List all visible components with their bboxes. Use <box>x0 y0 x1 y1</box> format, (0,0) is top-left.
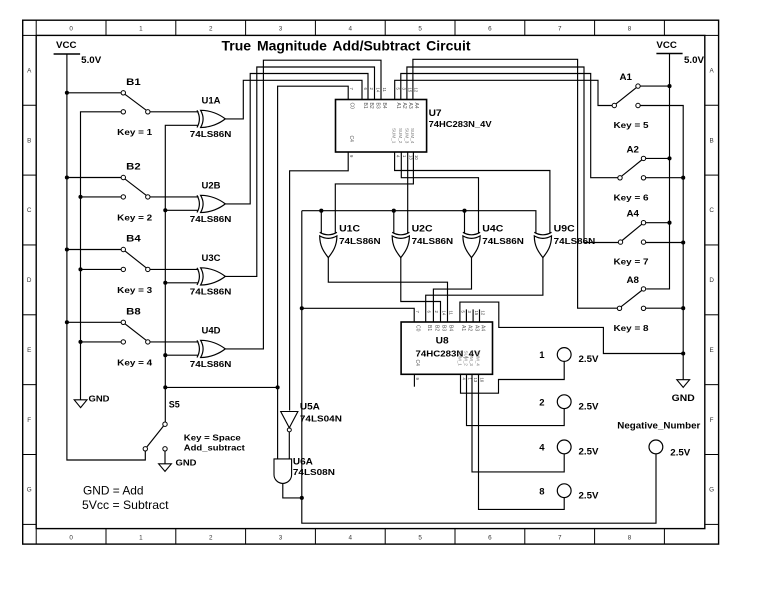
ground symbol S5 <box>159 457 197 471</box>
svg-text:11: 11 <box>382 88 387 93</box>
wire VCC to B2 top throw <box>67 177 121 179</box>
svg-text:U7: U7 <box>429 108 442 118</box>
wire to U8 C0 <box>302 308 414 322</box>
svg-text:A4: A4 <box>480 325 486 331</box>
U8 pin names inside <box>414 325 486 366</box>
wire rail tap U4C <box>464 211 466 234</box>
svg-text:GND: GND <box>672 393 695 403</box>
svg-text:1: 1 <box>539 350 545 361</box>
junction control rail to add/subtract net <box>163 385 167 389</box>
junction control - S5 feed <box>276 385 280 389</box>
switch B1 (SPDT) <box>121 77 150 114</box>
XOR gate U3C 74LS86N <box>190 253 232 296</box>
wire stub to U2B input B <box>165 209 197 211</box>
wire B8 bottom throw to GND rail <box>81 341 122 343</box>
junction GND rail - U8 A1 net <box>681 351 685 355</box>
svg-text:5: 5 <box>418 534 422 541</box>
probe indicator 4 2.5V <box>539 440 598 457</box>
XOR gate U2C 74LS86N <box>392 224 453 258</box>
svg-text:C4: C4 <box>348 136 354 143</box>
svg-text:SUM_2: SUM_2 <box>463 351 468 367</box>
svg-text:A2: A2 <box>467 325 473 331</box>
wire U7 C4 to U5A input <box>290 152 349 411</box>
wire U5A output to U6A input <box>288 432 290 459</box>
wire complement rail from U6A output net <box>302 211 536 234</box>
wire VCC to B4 top throw <box>67 249 121 251</box>
U8 pin A3 unconnected stub <box>472 309 474 322</box>
wire U2B output to U7 pin <box>225 74 368 204</box>
wire GND rail right from A1 bottom throw <box>640 106 683 380</box>
power VCC right 5.0V <box>656 40 704 65</box>
svg-text:U9C: U9C <box>554 224 576 234</box>
svg-text:74LS86N: 74LS86N <box>554 236 596 246</box>
switch S5 add/subtract <box>143 399 180 451</box>
wire A1 top throw to VCC rail <box>640 85 669 87</box>
svg-text:GND: GND <box>176 457 197 467</box>
svg-text:B3: B3 <box>375 103 381 109</box>
svg-text:C: C <box>709 207 714 214</box>
svg-text:2.5V: 2.5V <box>579 490 599 500</box>
svg-text:2.5V: 2.5V <box>670 447 690 457</box>
XOR gate U4C 74LS86N <box>463 224 524 258</box>
svg-text:2: 2 <box>209 26 213 33</box>
wire add/subtract control to U7 C0 and U6A <box>278 86 349 459</box>
svg-text:A8: A8 <box>627 275 640 285</box>
probe indicator Negative_Number 2.5V <box>617 419 700 457</box>
wire A8 bottom throw to GND rail <box>646 307 684 309</box>
junction control-U2B <box>163 208 167 212</box>
svg-text:D: D <box>27 277 32 284</box>
wire A4 bottom throw to GND rail <box>646 242 684 244</box>
svg-text:11: 11 <box>448 311 453 316</box>
svg-text:7: 7 <box>558 26 562 33</box>
svg-text:VCC: VCC <box>656 40 677 50</box>
junction GND-B2 <box>78 195 82 199</box>
junction VCC-B2 <box>65 175 69 179</box>
XOR gate U1A 74LS86N <box>190 96 232 139</box>
probe indicator 8 2.5V <box>539 484 598 500</box>
wire U9C output to U8 B1 <box>426 258 543 322</box>
XOR gate U4D 74LS86N <box>190 326 232 369</box>
wire S5 GND throw <box>164 451 166 464</box>
svg-text:U2C: U2C <box>412 224 434 234</box>
wire rail tap U2C <box>393 211 395 234</box>
svg-text:A4: A4 <box>413 103 419 109</box>
svg-text:74LS86N: 74LS86N <box>190 359 232 369</box>
wire U7 SUM_1 to U9C input <box>395 152 550 234</box>
svg-text:13: 13 <box>473 378 478 383</box>
adder chip U8 74HC283N_4V <box>401 322 492 374</box>
XOR gate U9C 74LS86N <box>534 224 595 258</box>
switch B4 (SPDT) <box>121 234 150 272</box>
svg-text:A1: A1 <box>395 103 401 109</box>
svg-text:1: 1 <box>139 534 143 541</box>
svg-text:15: 15 <box>408 88 413 93</box>
svg-text:B4: B4 <box>126 234 141 244</box>
junction control-U4D <box>163 353 167 357</box>
wire U4C output to U8 B2 <box>433 258 471 322</box>
svg-text:D: D <box>709 277 714 284</box>
U8 pin C4 unconnected stub <box>413 374 415 386</box>
svg-text:12: 12 <box>414 88 419 93</box>
svg-text:10: 10 <box>414 155 419 160</box>
svg-text:U1C: U1C <box>339 224 361 234</box>
wire U6A output to negative net <box>283 483 302 498</box>
svg-text:15: 15 <box>474 311 479 316</box>
junction control-U3C <box>163 281 167 285</box>
power VCC left 5.0V <box>54 40 102 65</box>
svg-text:Key = 3: Key = 3 <box>117 285 152 295</box>
inverter U5A 74LS04N <box>281 402 342 432</box>
probe indicator 2 2.5V <box>539 395 598 411</box>
wire A8 pivot to U7 A4 <box>413 59 617 308</box>
wire rail tap U1C <box>320 211 322 234</box>
wire U7 SUM_2 to U4C input <box>401 152 478 234</box>
svg-text:B3: B3 <box>441 325 447 331</box>
svg-text:Key = 7: Key = 7 <box>614 257 649 267</box>
svg-text:C0: C0 <box>414 325 420 332</box>
wire U1C output to U8 B4 <box>328 258 447 322</box>
svg-text:10: 10 <box>479 378 484 383</box>
svg-text:B8: B8 <box>126 307 141 317</box>
wire A1 pivot to U7 A1 <box>395 80 612 105</box>
junction VCC-A4 <box>667 221 671 225</box>
svg-text:74LS86N: 74LS86N <box>190 129 232 139</box>
svg-text:GND = Add: GND = Add <box>83 484 144 498</box>
svg-text:G: G <box>709 487 714 494</box>
svg-text:Add_subtract: Add_subtract <box>184 443 245 453</box>
wire U8 SUM_1 to probe 1 <box>461 362 565 394</box>
svg-text:F: F <box>27 417 31 424</box>
junction GND-A4 <box>681 240 685 244</box>
svg-text:74LS86N: 74LS86N <box>190 286 232 296</box>
svg-text:1: 1 <box>139 26 143 33</box>
svg-text:A2: A2 <box>627 144 640 154</box>
U7 pin names inside <box>348 103 419 144</box>
switch A2 (SPDT) <box>618 144 646 180</box>
svg-text:2.5V: 2.5V <box>579 447 599 457</box>
switch A4 (SPDT) <box>618 209 645 245</box>
svg-text:U5A: U5A <box>300 402 321 412</box>
junction U6A output <box>300 496 304 500</box>
wire VCC to B8 top throw <box>67 321 121 323</box>
wire B8 pivot to U4D input A <box>150 341 199 343</box>
svg-text:B: B <box>27 137 31 144</box>
wire U8 SUM_3 to probe 4 <box>472 374 564 472</box>
svg-text:B1: B1 <box>362 103 368 109</box>
label Key = Space / Add_subtract <box>184 432 245 452</box>
junction GND-A2 <box>681 176 685 180</box>
svg-text:U6A: U6A <box>293 456 314 466</box>
AND gate U6A 74LS08N <box>274 456 335 483</box>
svg-text:2.5V: 2.5V <box>579 354 599 364</box>
wire S5 control rail to XOR B-inputs <box>165 125 197 422</box>
wire A4 top throw to VCC rail <box>646 222 670 224</box>
U8 pin A2 unconnected stub <box>465 309 467 322</box>
svg-text:Key = 6: Key = 6 <box>614 192 649 202</box>
switch A8 (SPDT) <box>617 275 645 311</box>
svg-text:B1: B1 <box>126 77 141 87</box>
svg-text:8: 8 <box>628 26 632 33</box>
wire U6A net vertical to Negative_Number <box>302 211 656 524</box>
junction GND-B8 <box>78 340 82 344</box>
svg-text:Key = 4: Key = 4 <box>117 357 152 367</box>
switch B8 (SPDT) <box>121 307 150 345</box>
wire stub to U3C input B <box>165 282 197 284</box>
U8 pin A4 unconnected stub <box>479 309 481 322</box>
wire A2 pivot to U7 A2 <box>401 74 618 178</box>
wire U3C output to U7 pin <box>225 67 374 276</box>
wire VCC rail right <box>646 54 669 289</box>
svg-text:Negative_Number: Negative_Number <box>617 419 700 430</box>
svg-text:12: 12 <box>480 311 485 316</box>
svg-text:B: B <box>709 137 713 144</box>
svg-text:6: 6 <box>488 534 492 541</box>
svg-text:SUM_4: SUM_4 <box>475 351 480 367</box>
svg-text:A1: A1 <box>460 325 466 331</box>
svg-text:74LS04N: 74LS04N <box>300 413 342 423</box>
wire VCC to B1 top throw <box>67 92 121 94</box>
svg-text:S5: S5 <box>169 399 180 409</box>
svg-text:G: G <box>27 487 32 494</box>
svg-text:14: 14 <box>375 88 380 93</box>
svg-text:U3C: U3C <box>202 253 222 263</box>
svg-text:0: 0 <box>69 534 73 541</box>
svg-text:6: 6 <box>488 26 492 33</box>
junction VCC-B8 <box>65 320 69 324</box>
note GND = Add / 5Vcc = Subtract <box>82 484 169 512</box>
svg-text:E: E <box>709 347 713 354</box>
svg-text:5.0V: 5.0V <box>81 55 101 65</box>
junction VCC-A1 <box>667 84 671 88</box>
svg-text:2.5V: 2.5V <box>579 401 599 411</box>
wire A2 top throw to VCC rail <box>646 157 670 159</box>
svg-text:B2: B2 <box>368 103 374 109</box>
svg-text:5Vcc = Subtract: 5Vcc = Subtract <box>82 498 169 512</box>
svg-text:SUM_2: SUM_2 <box>398 128 403 144</box>
svg-text:VCC: VCC <box>56 40 77 50</box>
junction VCC-A2 <box>667 156 671 160</box>
junction rail-U2C <box>392 209 396 213</box>
svg-text:4: 4 <box>349 26 353 33</box>
wire A2 bottom throw to GND rail <box>646 177 684 179</box>
svg-text:8: 8 <box>628 534 632 541</box>
adder chip U7 74HC283N_4V <box>336 100 492 153</box>
svg-text:U1A: U1A <box>202 96 222 106</box>
wire B1 pivot to U1A input A <box>150 111 199 113</box>
svg-text:7: 7 <box>558 534 562 541</box>
svg-text:B2: B2 <box>434 325 440 331</box>
svg-text:2: 2 <box>539 397 544 408</box>
svg-text:0: 0 <box>69 26 73 33</box>
svg-text:74LS86N: 74LS86N <box>412 236 454 246</box>
svg-text:SUM_1: SUM_1 <box>391 128 396 144</box>
svg-text:4: 4 <box>539 443 545 454</box>
XOR gate U1C 74LS86N <box>320 224 381 258</box>
wire U8 SUM_4 to probe 8 <box>479 374 565 509</box>
switch B2 (SPDT) <box>121 162 150 199</box>
svg-text:74LS08N: 74LS08N <box>293 467 335 477</box>
wire A4 pivot to U7 A3 <box>407 67 618 243</box>
svg-text:A3: A3 <box>473 325 479 331</box>
U8 pin numbers <box>415 311 485 383</box>
junction complement rail - U8 C0 <box>300 306 304 310</box>
svg-text:3: 3 <box>279 534 283 541</box>
svg-text:74HC283N_4V: 74HC283N_4V <box>429 119 492 129</box>
svg-text:B1: B1 <box>426 325 432 331</box>
svg-text:U8: U8 <box>436 336 449 346</box>
wire B2 bottom throw to GND rail <box>81 196 122 198</box>
svg-text:A1: A1 <box>620 72 633 82</box>
junction VCC-B4 <box>65 247 69 251</box>
svg-text:14: 14 <box>441 311 446 316</box>
svg-text:Key = 1: Key = 1 <box>117 127 152 137</box>
wire S5 pivot to control net <box>165 386 277 388</box>
XOR gate U2B 74LS86N <box>190 181 232 224</box>
svg-text:B2: B2 <box>126 162 141 172</box>
wire U7 SUM_3 to U2C input <box>407 152 409 234</box>
switch A1 (SPDT) <box>612 72 640 108</box>
svg-text:U4D: U4D <box>202 326 221 336</box>
svg-text:B4: B4 <box>448 325 454 331</box>
svg-text:5.0V: 5.0V <box>684 55 704 65</box>
svg-text:SUM_4: SUM_4 <box>410 128 415 144</box>
svg-text:5: 5 <box>418 26 422 33</box>
probe indicator 1 2.5V <box>539 348 598 365</box>
U7 pin numbers <box>349 88 419 161</box>
junction GND-A8 <box>681 306 685 310</box>
wire U7 SUM_4 to U1C input <box>335 152 413 234</box>
svg-text:13: 13 <box>408 155 413 160</box>
ground symbol right rail <box>672 380 695 403</box>
wire stub to U4D input B <box>165 354 197 356</box>
wire B2 pivot to U2B input A <box>150 196 199 198</box>
junction VCC-B1 <box>65 91 69 95</box>
wire U8 SUM_2 to probe 2 <box>467 374 565 425</box>
svg-text:2: 2 <box>209 534 213 541</box>
svg-text:74LS86N: 74LS86N <box>339 236 381 246</box>
svg-text:A4: A4 <box>627 209 640 219</box>
junction rail-U1C <box>319 209 323 213</box>
svg-text:C4: C4 <box>414 360 420 367</box>
wire VCC rail left down to S5 throw <box>67 54 145 460</box>
svg-text:Key = Space: Key = Space <box>184 432 241 442</box>
svg-text:U4C: U4C <box>482 224 504 234</box>
junction GND-B4 <box>78 267 82 271</box>
svg-text:4: 4 <box>349 534 353 541</box>
svg-text:74LS86N: 74LS86N <box>482 236 524 246</box>
svg-text:E: E <box>27 347 31 354</box>
wire B4 pivot to U3C input A <box>150 268 199 270</box>
junction rail-U4C <box>462 209 466 213</box>
svg-text:74LS86N: 74LS86N <box>190 214 232 224</box>
svg-text:True Magnitude Add/Subtract Ci: True Magnitude Add/Subtract Circuit <box>222 38 471 53</box>
wire U1A output to U7 pin <box>225 80 362 119</box>
svg-text:A3: A3 <box>407 103 413 109</box>
svg-text:SUM_3: SUM_3 <box>469 351 474 367</box>
svg-text:B4: B4 <box>381 103 387 109</box>
ground symbol left rail <box>74 393 109 407</box>
wire U2C output to U8 B3 <box>401 258 441 322</box>
wire GND rail left from B1 bottom throw <box>81 112 122 400</box>
svg-text:GND: GND <box>89 393 110 403</box>
wire B4 bottom throw to GND rail <box>81 268 122 270</box>
svg-text:8: 8 <box>539 486 544 497</box>
wire U8 A1 to ground rail <box>460 302 683 353</box>
svg-text:F: F <box>710 417 714 424</box>
svg-text:Key = 8: Key = 8 <box>614 323 649 333</box>
svg-text:SUM_3: SUM_3 <box>404 128 409 144</box>
svg-text:C0: C0 <box>348 103 354 110</box>
svg-text:U2B: U2B <box>202 181 221 191</box>
svg-text:Key = 5: Key = 5 <box>614 120 649 130</box>
svg-text:C: C <box>27 207 32 214</box>
svg-text:Key = 2: Key = 2 <box>117 212 152 222</box>
svg-text:SUM_1: SUM_1 <box>457 351 462 367</box>
svg-text:A2: A2 <box>401 103 407 109</box>
wire U4D output to U7 pin <box>225 60 381 349</box>
svg-text:3: 3 <box>279 26 283 33</box>
